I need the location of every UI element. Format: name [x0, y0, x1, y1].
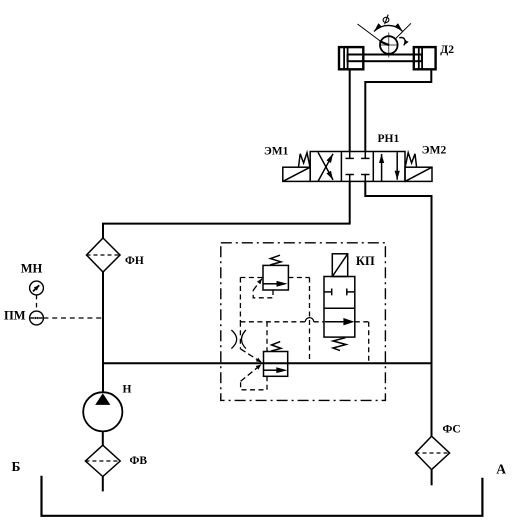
- throttle arcs: [231, 330, 246, 349]
- actuator D2 pinion circle: [380, 36, 398, 54]
- wire valve P to filter FN: [103, 181, 350, 238]
- actuator D2 rotary drive: left cylinder block: [339, 23, 436, 69]
- wire FS into tank: [431, 470, 433, 486]
- main left line: [102, 272, 104, 392]
- valve 1 pilot loop: [253, 279, 273, 298]
- valve KP body: [324, 254, 355, 351]
- KP flow arrow: [325, 321, 344, 323]
- svg-text:Н: Н: [123, 383, 132, 395]
- svg-text:МН: МН: [21, 262, 43, 276]
- filter FV: [85, 445, 120, 476]
- dashed link MN-PM: [36, 295, 38, 311]
- svg-text:КП: КП: [356, 254, 375, 268]
- svg-text:ФН: ФН: [125, 255, 144, 267]
- filter FS: [416, 436, 450, 469]
- relief valve 2 (lower) body: [264, 342, 288, 377]
- angle ray right: [396, 23, 411, 38]
- actuator D2 left piston double line: [343, 47, 345, 69]
- relief valve 1 (top) body: [263, 255, 288, 290]
- KP pilot right to main line: [355, 322, 369, 363]
- wire valve T to right line: [365, 181, 431, 436]
- svg-text:ЭМ2: ЭМ2: [422, 145, 447, 157]
- valve RN1 body: [283, 152, 432, 182]
- pilot dashed box around valve 1: [240, 278, 324, 364]
- pinion needle: [380, 41, 389, 45]
- valve center position closed ports: [349, 152, 351, 159]
- svg-text:А: А: [496, 462, 506, 477]
- actuator D2 rack bar: [348, 55, 422, 62]
- wire pump to FV: [102, 431, 104, 445]
- gauge MN: [30, 281, 44, 295]
- tank: [42, 476, 483, 516]
- manifold block boundary: [221, 243, 386, 401]
- pilot line through arcs to valve 2 inlet: [240, 322, 261, 363]
- valve 2 pilot loop: [241, 364, 267, 389]
- spring above valve 2: [271, 342, 281, 352]
- spring above EM2: [405, 153, 416, 168]
- actuator D2 right piston double line: [418, 47, 420, 69]
- svg-text:Д2: Д2: [440, 44, 454, 56]
- solenoid EM2: [405, 167, 432, 181]
- label phi: [383, 15, 390, 25]
- dashed line PM to main line: [43, 317, 103, 319]
- spring above EM1: [299, 153, 311, 168]
- svg-text:ЭМ1: ЭМ1: [264, 145, 289, 157]
- valve right position straight arrows: [381, 154, 383, 181]
- KP closed ports: [324, 291, 332, 293]
- main horizontal line: [103, 362, 432, 364]
- rotation arrow: [399, 38, 405, 46]
- wire FV into tank: [102, 477, 104, 492]
- angle ray left: [358, 24, 382, 42]
- actuator D2 right cylinder block: [414, 47, 436, 69]
- svg-text:РН1: РН1: [378, 133, 400, 145]
- svg-text:ФВ: ФВ: [130, 455, 148, 467]
- pinion crosshair: [388, 33, 390, 58]
- pressure switch PM: [30, 311, 44, 325]
- filter FN: [87, 238, 121, 272]
- KP spring below: [333, 338, 346, 351]
- valve left position crossed arrows: [318, 154, 333, 182]
- KP solenoid: [332, 254, 347, 277]
- svg-text:ПМ: ПМ: [4, 309, 26, 323]
- solenoid EM1: [283, 167, 310, 181]
- svg-text:ФС: ФС: [443, 424, 461, 436]
- angle arc with arrows: [374, 25, 403, 31]
- svg-text:Б: Б: [12, 459, 21, 474]
- pump N: [83, 392, 122, 431]
- hump over crossing: [305, 318, 313, 322]
- wire actuator left to valve: [349, 69, 351, 151]
- vertical from box bottom to valve 2: [266, 322, 268, 352]
- spring above valve 1: [270, 255, 281, 265]
- wire actuator right to valve (stair): [365, 69, 431, 151]
- pilot drain vertical to main line: [309, 278, 311, 364]
